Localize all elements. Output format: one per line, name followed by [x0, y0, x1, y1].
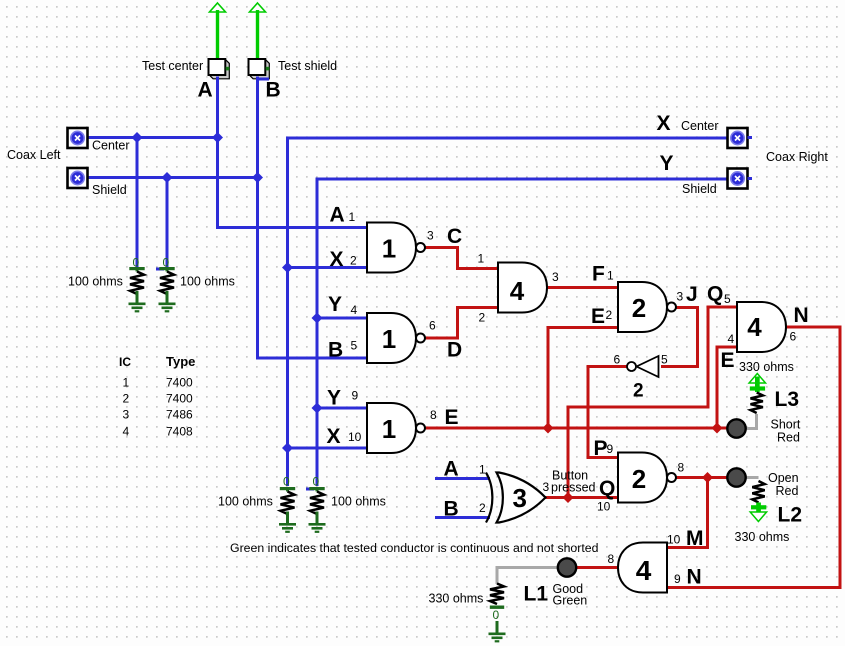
wire gate U2.8 out to LED L2: [676, 476, 727, 479]
svg-text:E: E: [591, 305, 605, 328]
wire net J gate U2.3 to inverter U2.5: [661, 308, 698, 367]
resistor R7 330 ohms for L1: [489, 584, 506, 642]
svg-text:7486: 7486: [166, 408, 193, 422]
svg-text:10: 10: [348, 430, 362, 444]
NAND gate U1b (1): [367, 313, 425, 363]
svg-text:A: A: [198, 78, 213, 101]
svg-text:A: A: [444, 458, 459, 481]
svg-text:6: 6: [429, 319, 436, 333]
svg-text:Q: Q: [599, 477, 615, 500]
svg-text:1: 1: [382, 234, 396, 264]
terminal Coax Left Shield: [68, 168, 88, 188]
wire net P inverter U2.6 to U2.9: [588, 367, 627, 458]
svg-text:B: B: [444, 498, 459, 521]
terminal Coax Right Center (X): [728, 128, 748, 148]
svg-text:10: 10: [597, 500, 611, 514]
terminal Coax Right Shield (Y): [728, 169, 748, 189]
svg-text:2: 2: [479, 501, 486, 515]
LED L3 (Short Red): [727, 419, 745, 437]
wire stub right of X terminal: [748, 136, 753, 139]
supply arrow Test-shield: [250, 3, 266, 12]
svg-text:D: D: [447, 339, 462, 362]
junction net Q button pressed: [563, 492, 574, 503]
green wire to button B: [256, 10, 259, 59]
svg-text:Short: Short: [771, 418, 801, 432]
svg-text:5: 5: [724, 292, 731, 306]
svg-text:L1: L1: [524, 583, 549, 606]
svg-text:4: 4: [747, 312, 762, 342]
svg-text:4: 4: [728, 332, 735, 346]
wire net X branch to gate U1 pin10: [288, 447, 369, 450]
svg-text:Y: Y: [660, 152, 674, 175]
svg-text:Type: Type: [166, 354, 195, 369]
wire button B stub: [258, 78, 270, 81]
svg-text:2: 2: [479, 311, 486, 325]
svg-text:Shield: Shield: [92, 183, 127, 197]
svg-text:1: 1: [479, 463, 486, 477]
svg-text:P: P: [594, 437, 608, 460]
wire net M to gate U4 pin10: [666, 478, 708, 548]
resistor R3 100 ohms: [279, 475, 296, 532]
wire Coax-Left Shield to node B: [86, 176, 259, 179]
svg-text:Open: Open: [768, 471, 799, 485]
wire net C gate U1.3 to U4.1: [426, 248, 500, 269]
junction net X pin10: [282, 443, 293, 454]
svg-text:6: 6: [614, 353, 621, 367]
wire net E branch to gate U2 pin2: [548, 328, 619, 429]
resistor R5 330 ohms + supply for L3: [749, 374, 765, 414]
svg-text:Q: Q: [707, 283, 723, 306]
svg-text:4: 4: [351, 303, 358, 317]
XOR gate U3 (3): [486, 473, 546, 523]
AND gate U4c (4, mirrored): [618, 543, 667, 593]
wire net Y horizontal to Coax-Right Shield: [316, 178, 729, 487]
svg-text:Shield: Shield: [682, 182, 717, 196]
svg-text:Test center: Test center: [142, 59, 203, 73]
svg-text:0: 0: [313, 475, 320, 489]
junction net X pin2: [282, 262, 293, 273]
supply arrow Test-center: [210, 3, 226, 12]
junction node A (center/R1): [132, 132, 143, 143]
svg-text:Coax Left: Coax Left: [7, 148, 61, 162]
wire net Y branch to gate U1 pin4: [317, 317, 368, 320]
svg-text:C: C: [447, 225, 462, 248]
svg-text:1: 1: [382, 414, 396, 444]
switch Test center (A): [209, 59, 230, 79]
wire net E main to LED L3: [426, 427, 728, 430]
wire net Q XOR out to gate U2 pin10: [545, 496, 619, 499]
junction node A (button A): [212, 132, 223, 143]
svg-text:Center: Center: [681, 119, 719, 133]
svg-text:9: 9: [674, 572, 681, 586]
svg-text:0: 0: [283, 475, 290, 489]
svg-text:X: X: [327, 425, 341, 448]
svg-text:J: J: [686, 283, 698, 306]
svg-text:1: 1: [349, 210, 356, 224]
wire button A down + A line to gate U1 pin1: [218, 77, 369, 228]
svg-text:9: 9: [607, 442, 614, 456]
svg-text:100 ohms: 100 ohms: [68, 275, 123, 289]
svg-text:3: 3: [552, 270, 559, 284]
AND gate U4b (4): [737, 302, 786, 352]
svg-text:L2: L2: [778, 504, 803, 527]
svg-text:3: 3: [427, 229, 434, 243]
svg-text:1: 1: [382, 324, 396, 354]
wire gate U4.8 out to LED L1: [577, 566, 620, 569]
svg-text:4: 4: [510, 276, 525, 306]
wire net D gate U1.6 to U4.2: [426, 308, 500, 339]
svg-text:4: 4: [636, 555, 652, 586]
svg-text:330 ohms: 330 ohms: [735, 530, 790, 544]
svg-text:0: 0: [493, 608, 500, 622]
wire net-B stub to XOR U3 pin2: [435, 516, 490, 519]
NAND gate U1c (1): [367, 403, 425, 453]
svg-text:0: 0: [163, 256, 170, 270]
wire gray LED L2 to resistor R6: [745, 476, 759, 479]
svg-text:1: 1: [478, 252, 485, 266]
junction net M: [702, 472, 713, 483]
junction net Y pin4: [312, 313, 323, 324]
wire button B down + B line to gate U1 pin5: [258, 77, 369, 359]
svg-text:7400: 7400: [166, 392, 193, 406]
wire net X horizontal to Coax-Right Center: [286, 137, 729, 487]
svg-text:2: 2: [123, 392, 130, 406]
resistor R6 330 ohms + supply for L2: [750, 481, 766, 522]
svg-text:0: 0: [133, 256, 140, 270]
svg-text:100 ohms: 100 ohms: [180, 275, 235, 289]
resistor R1 100 ohms: [129, 256, 146, 312]
svg-text:100 ohms: 100 ohms: [331, 495, 386, 509]
svg-text:Center: Center: [92, 139, 130, 153]
resistor R4 100 ohms: [309, 475, 326, 532]
svg-text:X: X: [657, 112, 671, 135]
junction net E / pin4 branch: [712, 423, 723, 434]
wire stub right of Y terminal: [748, 177, 753, 180]
svg-text:A: A: [330, 204, 345, 227]
junction node B (button B): [252, 172, 263, 183]
NAND gate U2a (2): [618, 282, 676, 332]
wire node-B drop to resistor R2: [166, 177, 169, 268]
switch Test shield (B): [249, 59, 270, 79]
svg-text:100 ohms: 100 ohms: [218, 495, 273, 509]
svg-text:2: 2: [606, 308, 613, 322]
svg-text:5: 5: [351, 339, 358, 353]
svg-text:8: 8: [678, 461, 685, 475]
svg-text:Green indicates that tested co: Green indicates that tested conductor is…: [230, 541, 599, 555]
svg-text:Red: Red: [777, 431, 800, 445]
terminal Coax Left Center: [68, 128, 88, 148]
svg-text:9: 9: [352, 389, 359, 403]
AND gate U4a (4): [498, 263, 547, 313]
junction net Y pin9: [312, 403, 323, 414]
svg-text:2: 2: [632, 464, 646, 494]
NAND gate U1a (1): [367, 223, 425, 273]
svg-text:2: 2: [632, 293, 646, 323]
green wire to button A: [216, 10, 219, 59]
svg-text:3: 3: [512, 483, 526, 513]
svg-text:Y: Y: [328, 293, 342, 316]
inverter U2b (2): [627, 356, 659, 377]
svg-text:L3: L3: [775, 388, 800, 411]
svg-text:Y: Y: [327, 387, 341, 410]
wire resistor R2 cap stub: [156, 268, 164, 271]
wire Coax-Left Center to node A: [86, 136, 219, 139]
svg-text:M: M: [686, 527, 704, 550]
svg-text:3: 3: [677, 290, 684, 304]
svg-text:1: 1: [607, 269, 614, 283]
svg-text:E: E: [721, 349, 735, 372]
svg-text:Green: Green: [553, 594, 588, 608]
wire resistor R4 cap stub: [306, 488, 314, 491]
wire net F gate U4.3 to U2.1: [545, 286, 619, 289]
svg-text:8: 8: [430, 408, 437, 422]
LED L2 (Open Red): [727, 468, 745, 486]
wire net X branch to gate U1 pin2: [288, 266, 369, 269]
svg-text:6: 6: [790, 330, 797, 344]
svg-text:2: 2: [350, 254, 357, 268]
svg-text:7408: 7408: [166, 425, 193, 439]
svg-text:B: B: [328, 339, 343, 362]
junction net E / E2 branch: [543, 423, 554, 434]
wire net N gate U4.6 to U4.9: [666, 327, 840, 588]
svg-text:330 ohms: 330 ohms: [739, 360, 794, 374]
svg-text:10: 10: [667, 533, 681, 547]
svg-text:1: 1: [123, 376, 130, 390]
svg-text:3: 3: [543, 480, 550, 494]
svg-text:IC: IC: [119, 355, 131, 369]
svg-text:B: B: [266, 78, 281, 101]
wire gray LED L1 to resistor R7: [497, 568, 558, 585]
wire node-A drop to resistor R1: [136, 137, 139, 268]
svg-text:5: 5: [661, 353, 668, 367]
svg-text:3: 3: [123, 408, 130, 422]
svg-text:4: 4: [123, 425, 130, 439]
wire net Y branch to gate U1 pin9: [317, 407, 368, 410]
svg-text:X: X: [330, 248, 344, 271]
svg-text:7400: 7400: [166, 376, 193, 390]
svg-text:Test shield: Test shield: [278, 59, 337, 73]
svg-text:2: 2: [633, 381, 644, 402]
wire net-A stub to XOR U3 pin1: [435, 477, 490, 480]
svg-text:Coax Right: Coax Right: [766, 150, 828, 164]
svg-text:330 ohms: 330 ohms: [429, 592, 484, 606]
svg-text:pressed: pressed: [551, 481, 596, 495]
svg-text:F: F: [592, 263, 605, 286]
junction node B (shield/R2): [162, 172, 173, 183]
svg-text:N: N: [687, 566, 702, 589]
svg-text:8: 8: [608, 552, 615, 566]
svg-text:N: N: [794, 304, 809, 327]
LED L1 (Good Green): [558, 558, 576, 576]
svg-text:E: E: [445, 406, 459, 429]
wire net E branch to gate U4 pin4: [717, 347, 738, 428]
wire gray LED L3 to resistor R5: [745, 414, 757, 429]
NAND gate U2c (2): [618, 453, 676, 503]
svg-text:Red: Red: [776, 484, 799, 498]
resistor R2 100 ohms: [159, 256, 176, 312]
wire net Q branch to gate U4 pin5: [568, 307, 738, 496]
